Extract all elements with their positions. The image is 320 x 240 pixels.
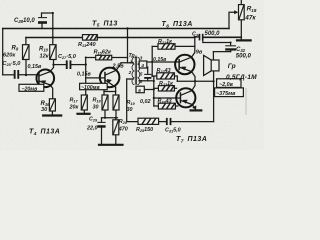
svg-text:С27·5,0: С27·5,0	[58, 54, 77, 60]
svg-text:30: 30	[93, 105, 99, 111]
svg-text:R10: R10	[39, 47, 49, 53]
svg-text:~375мв: ~375мв	[216, 91, 236, 97]
svg-text:5: 5	[140, 72, 143, 77]
svg-text:1: 1	[130, 59, 133, 64]
svg-text:R13240: R13240	[78, 42, 97, 48]
svg-text:620к: 620к	[3, 53, 16, 59]
svg-text:С32: С32	[236, 47, 246, 53]
svg-text:9в: 9в	[196, 50, 203, 56]
svg-text:47к: 47к	[244, 14, 256, 21]
svg-text:R1562к: R1562к	[94, 50, 113, 56]
svg-text:~2,0в: ~2,0в	[219, 82, 234, 88]
svg-text:0,5ГД-1М: 0,5ГД-1М	[226, 74, 257, 81]
svg-text:4: 4	[140, 63, 144, 68]
svg-text:2,5в: 2,5в	[112, 64, 125, 70]
svg-text:500,0: 500,0	[236, 54, 252, 60]
svg-text:R25150: R25150	[136, 127, 153, 133]
svg-text:20к: 20к	[69, 105, 79, 111]
svg-text:22,0: 22,0	[86, 126, 98, 132]
svg-text:500,0: 500,0	[205, 31, 221, 37]
svg-text:0,02: 0,02	[140, 99, 151, 105]
svg-text:Гр: Гр	[228, 63, 236, 70]
svg-text:30: 30	[41, 107, 48, 113]
svg-text:~100мв: ~100мв	[81, 85, 100, 91]
svg-text:0,15в: 0,15в	[77, 72, 91, 78]
svg-text:3: 3	[140, 55, 143, 60]
svg-text:0,15в: 0,15в	[153, 57, 166, 63]
svg-text:С2810,0: С2810,0	[14, 18, 35, 24]
svg-text:−20мв: −20мв	[22, 86, 38, 92]
svg-text:С315,0: С315,0	[165, 128, 181, 134]
svg-text:R9: R9	[12, 46, 19, 52]
svg-text:470: 470	[118, 127, 128, 133]
svg-text:30: 30	[127, 107, 133, 113]
svg-text:0,15в: 0,15в	[28, 64, 42, 70]
svg-text:6: 6	[140, 79, 143, 84]
svg-text:2: 2	[128, 70, 132, 75]
svg-text:С25·5,0: С25·5,0	[3, 61, 22, 67]
svg-text:6: 6	[138, 88, 141, 93]
svg-text:12к: 12к	[40, 54, 50, 60]
